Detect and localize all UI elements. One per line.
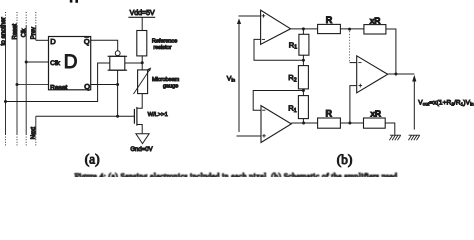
junction on Clk bus	[25, 61, 28, 64]
wire Qbar to transistor gate bubble	[91, 40, 118, 51]
transistor M1 body	[108, 56, 128, 70]
D flip-flop U1	[49, 37, 91, 90]
bus line Clk (net)	[25, 12, 27, 147]
svg-text:R: R	[326, 15, 333, 25]
svg-text:(a): (a)	[85, 152, 100, 167]
node output A2	[302, 122, 305, 125]
ground (hatched) below xR	[389, 135, 400, 140]
svg-text:Clk: Clk	[50, 60, 60, 67]
svg-text:R1: R1	[289, 40, 297, 50]
resistor R1 (top)	[299, 34, 309, 55]
node D junction	[348, 28, 351, 31]
svg-text:Reset: Reset	[50, 84, 67, 91]
wire R1 to A2 output node	[302, 119, 304, 123]
wire A2 output row	[291, 122, 317, 124]
wire Q output to M1 bottom line	[91, 84, 118, 86]
resistor R1 (bottom)	[298, 96, 308, 119]
junction gate row	[116, 115, 119, 118]
feedback wire A1 inverting input	[254, 39, 303, 60]
svg-text:gauge: gauge	[163, 84, 178, 90]
svg-text:Q: Q	[84, 82, 90, 91]
A3 plus marker	[359, 84, 363, 88]
svg-text:D: D	[50, 37, 56, 46]
bus line Prev (net, top segment)	[35, 12, 37, 40]
node C junction	[302, 89, 305, 92]
svg-text:W/L>>1: W/L>>1	[148, 112, 168, 118]
svg-text:(b): (b)	[337, 152, 353, 167]
transistor M1 (pass transistor, box style) gate bubble	[115, 51, 120, 56]
wire Clk to flip-flop	[26, 61, 48, 63]
wire A1 output row	[291, 28, 318, 30]
wire R2 to node C	[302, 89, 304, 96]
transistor Q2 (NMOS W/L>>1)	[134, 107, 137, 126]
wire A3 output	[388, 73, 415, 75]
wire Vin to op-amp A2 + input	[237, 135, 262, 137]
wire Prev to D input	[36, 39, 49, 41]
svg-text:Gnd=0V: Gnd=0V	[130, 147, 152, 153]
svg-text:to another: to another	[0, 17, 7, 45]
wire R to node E	[340, 122, 363, 124]
ground (hatched) below Vout	[408, 135, 419, 140]
op-amp A1 (top)	[261, 10, 291, 44]
Vin source arrow	[238, 23, 240, 133]
node output A3	[394, 73, 397, 76]
svg-text:Reset: Reset	[12, 23, 18, 39]
resistor xR (bottom)	[364, 118, 386, 128]
A1 minus marker	[262, 38, 265, 40]
svg-text:Figure 4: (a) Sensing electron: Figure 4: (a) Sensing electronics includ…	[75, 172, 398, 177]
bus line Reset (net)	[16, 12, 18, 147]
svg-text:Vin: Vin	[227, 76, 236, 84]
wire Reset to flip-flop	[17, 84, 49, 86]
wire R1 to node B	[302, 55, 304, 65]
node A junction	[141, 61, 144, 64]
wire xR to A3 output (feedback)	[386, 29, 396, 74]
A3 minus marker	[358, 62, 361, 64]
bus line Next (net, bottom segment)	[35, 116, 37, 147]
resistor R2	[298, 66, 308, 89]
junction on bus	[4, 100, 7, 103]
svg-text:Clk: Clk	[22, 28, 28, 38]
svg-text:Prev: Prev	[31, 27, 37, 39]
svg-text:resistor: resistor	[153, 45, 171, 51]
wire gauge to NMOS drain	[137, 94, 142, 109]
wire M1 right terminal to node A	[125, 62, 142, 64]
NMOS source wire to ground	[137, 125, 142, 134]
node output A1	[302, 27, 305, 30]
wire R to node D	[340, 28, 364, 30]
junction Q/M1	[116, 83, 119, 86]
svg-text:Q: Q	[84, 37, 90, 46]
A1 plus marker	[262, 14, 266, 18]
wire Vdd to reference resistor	[141, 17, 143, 30]
wire xR to ground	[385, 123, 395, 135]
wire reference resistor to node A	[141, 56, 143, 70]
node E junction	[348, 122, 351, 125]
svg-text:R: R	[326, 108, 333, 118]
svg-text:Reference: Reference	[152, 38, 177, 44]
connector node D to A3 inverting input (faint)	[349, 31, 351, 63]
svg-text:Vout=x(1+R2/R1)Vin: Vout=x(1+R2/R1)Vin	[418, 99, 474, 106]
ground (triangle)	[136, 134, 149, 144]
svg-text:Next: Next	[31, 127, 37, 140]
gauge arrow	[134, 70, 150, 95]
resistor R (bottom)	[318, 118, 341, 128]
svg-text:R1: R1	[288, 104, 296, 114]
cropped text remnant at top edge	[70, 0, 78, 3]
resistor R (top)	[318, 24, 341, 33]
feedback wire A2 inverting input	[253, 91, 303, 111]
junction on Reset bus	[16, 83, 19, 86]
wire M1 bottom terminal down	[117, 70, 119, 116]
wire Vin to op-amp A1 + input	[239, 15, 261, 17]
op-amp A3 (middle)	[357, 56, 388, 93]
op-amp A2 (bottom)	[261, 106, 291, 143]
A2 minus marker	[262, 109, 265, 111]
wire node E to A3 non-inverting input	[350, 86, 357, 123]
svg-text:xR: xR	[370, 16, 380, 26]
microbeam gauge R_g (variable resistor)	[138, 70, 148, 94]
svg-text:D: D	[64, 52, 78, 73]
resistor xR (top)	[364, 25, 386, 34]
svg-text:xR: xR	[370, 109, 380, 119]
Vout arrow line	[413, 80, 415, 130]
svg-text:Vdd=5V: Vdd=5V	[130, 10, 155, 17]
node B junction	[302, 59, 305, 62]
svg-text:Microbeam: Microbeam	[152, 77, 180, 83]
wire node to R1	[302, 29, 304, 34]
bus line "to another" (net, dotted ends)	[5, 12, 7, 147]
wire gate row to NMOS and Next	[36, 115, 135, 117]
wire M1 left terminal to "to another" bus	[6, 63, 110, 102]
reference resistor R_ref	[137, 31, 147, 56]
A2 plus marker	[262, 134, 266, 138]
svg-text:R2: R2	[288, 73, 296, 83]
